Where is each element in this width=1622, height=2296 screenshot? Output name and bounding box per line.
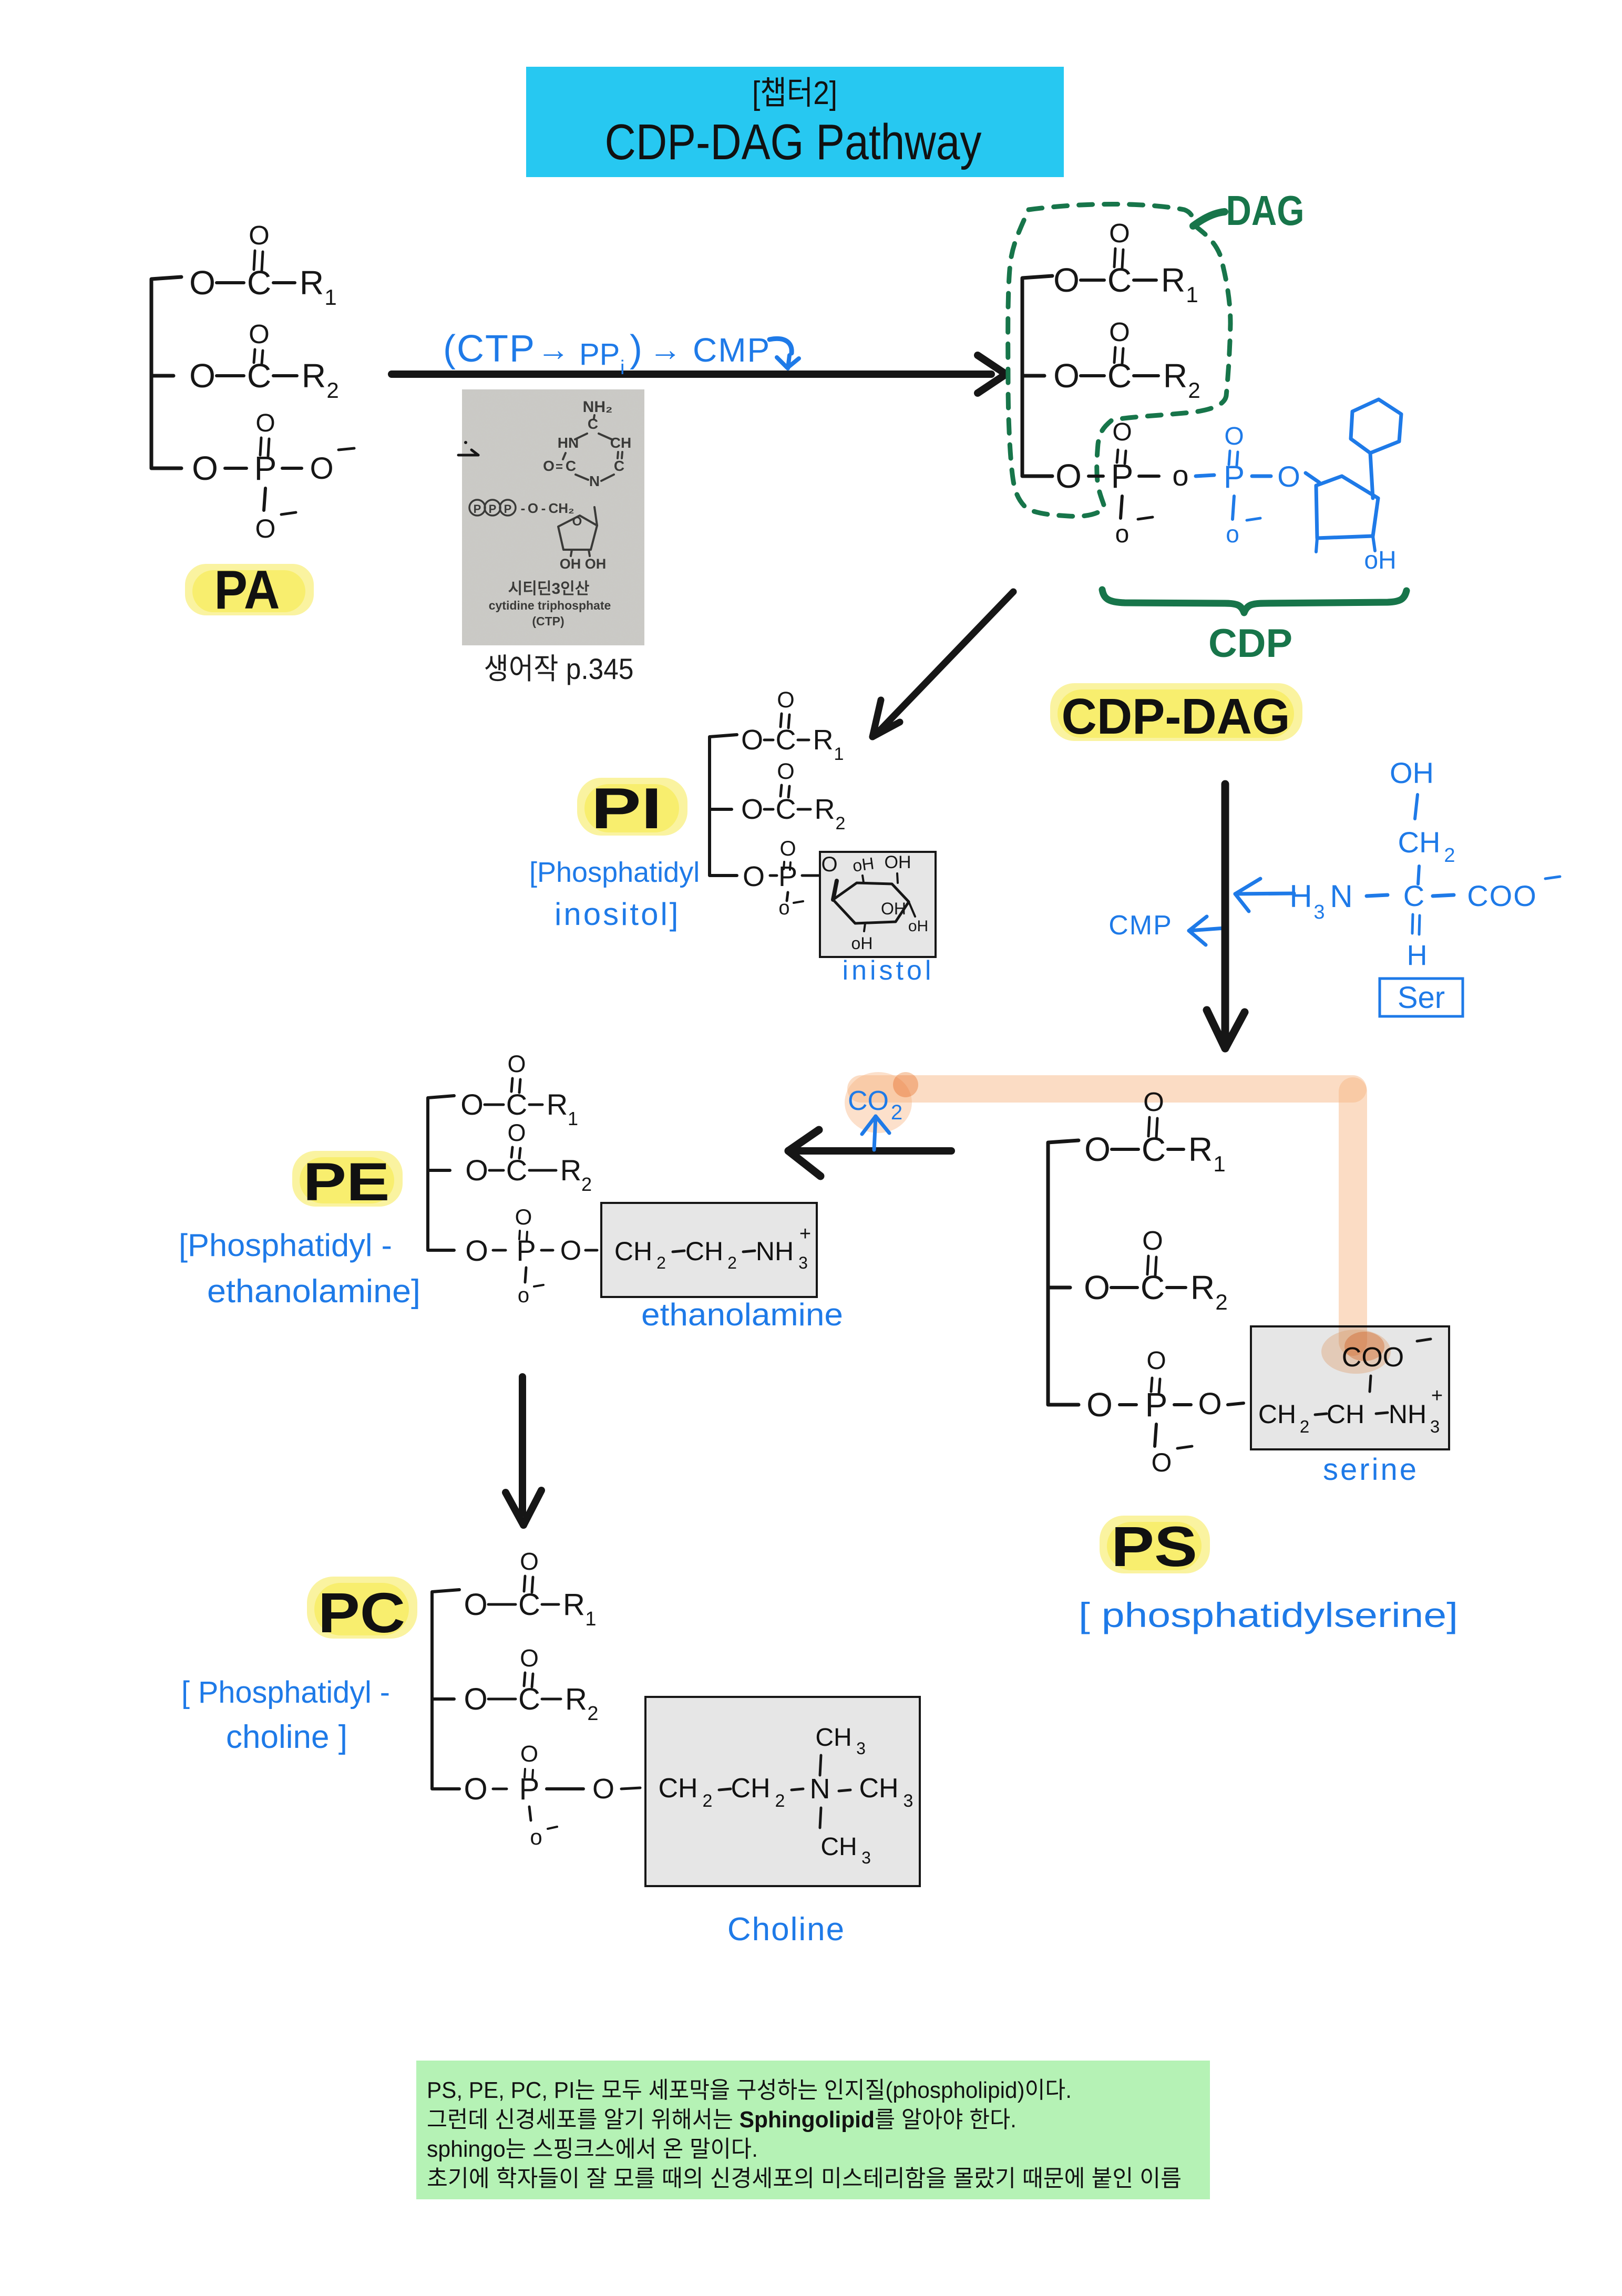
svg-text:inistol: inistol xyxy=(843,955,935,986)
svg-text:O: O xyxy=(465,1234,488,1267)
svg-text:3: 3 xyxy=(861,1848,871,1867)
svg-text:sphingo는 스핑크스에서 온 말이다.: sphingo는 스핑크스에서 온 말이다. xyxy=(427,2136,758,2162)
svg-text:O: O xyxy=(777,759,794,784)
svg-text:O: O xyxy=(528,500,538,516)
svg-text:R: R xyxy=(1190,1269,1215,1306)
svg-text:O: O xyxy=(310,451,333,486)
svg-text:R: R xyxy=(302,357,326,395)
svg-text:cytidine triphosphate: cytidine triphosphate xyxy=(489,599,611,612)
svg-text:2: 2 xyxy=(1188,378,1200,403)
svg-text:C: C xyxy=(614,458,624,474)
svg-text:H: H xyxy=(1289,879,1312,914)
svg-text:C: C xyxy=(506,1088,527,1121)
svg-text:O: O xyxy=(1053,261,1080,299)
svg-text:(CTP): (CTP) xyxy=(532,614,564,628)
svg-text:o: o xyxy=(1115,520,1130,548)
svg-text:o: o xyxy=(530,1825,542,1849)
svg-text:O: O xyxy=(1086,1386,1113,1424)
svg-text:CH: CH xyxy=(658,1773,697,1804)
svg-text:O: O xyxy=(189,357,215,395)
svg-text:R: R xyxy=(560,1154,581,1187)
svg-text:C: C xyxy=(1141,1269,1165,1306)
svg-text:CH: CH xyxy=(859,1773,898,1804)
svg-text:R: R xyxy=(563,1588,585,1622)
svg-text:N: N xyxy=(589,473,600,489)
svg-text:3: 3 xyxy=(904,1791,913,1811)
svg-text:O: O xyxy=(741,794,763,825)
svg-text:R: R xyxy=(547,1088,568,1121)
svg-text:2: 2 xyxy=(581,1173,592,1195)
svg-text:OH: OH xyxy=(585,556,607,572)
svg-text:그런데 신경세포를 알기 위해서는 Sphingolipid: 그런데 신경세포를 알기 위해서는 Sphingolipid를 알아야 한다. xyxy=(427,2107,1017,2133)
svg-text:CH: CH xyxy=(731,1773,770,1804)
svg-text:CH: CH xyxy=(1398,826,1441,859)
svg-text:C: C xyxy=(776,794,796,825)
svg-text:oH: oH xyxy=(908,918,928,935)
svg-text:3: 3 xyxy=(1313,901,1325,923)
svg-text:C: C xyxy=(588,416,598,432)
svg-text:CH₂: CH₂ xyxy=(548,500,574,516)
svg-text:2: 2 xyxy=(775,1791,785,1811)
svg-text:1: 1 xyxy=(834,744,844,764)
svg-text:O: O xyxy=(1084,1130,1111,1168)
svg-text:P: P xyxy=(778,861,797,892)
svg-text:o: o xyxy=(1226,520,1239,548)
svg-text:CMP: CMP xyxy=(693,331,771,369)
svg-text:C: C xyxy=(518,1588,540,1622)
svg-text:2: 2 xyxy=(656,1253,666,1272)
svg-text:2: 2 xyxy=(836,814,846,833)
svg-text:O: O xyxy=(1277,460,1300,493)
svg-text:O: O xyxy=(255,514,276,543)
svg-text:OH: OH xyxy=(560,556,581,572)
svg-text:O: O xyxy=(520,1741,538,1767)
svg-text:HN: HN xyxy=(558,435,579,451)
svg-text:O: O xyxy=(1109,317,1130,347)
svg-text:O: O xyxy=(560,1235,581,1266)
svg-text:O: O xyxy=(1146,1347,1166,1375)
svg-text:inositol]: inositol] xyxy=(555,897,680,932)
svg-text:생어작 p.345: 생어작 p.345 xyxy=(484,652,634,685)
svg-text:R: R xyxy=(565,1682,587,1716)
svg-text:2: 2 xyxy=(326,378,338,403)
svg-text:o: o xyxy=(1172,459,1188,492)
svg-text:3: 3 xyxy=(1430,1417,1440,1436)
svg-text:O: O xyxy=(1112,418,1132,446)
svg-text:oH: oH xyxy=(851,853,876,875)
svg-text:1: 1 xyxy=(568,1108,578,1129)
svg-text:O: O xyxy=(1055,457,1082,495)
svg-text:O: O xyxy=(821,853,837,876)
svg-text:OH: OH xyxy=(881,899,906,918)
svg-text:OH: OH xyxy=(1390,756,1434,789)
svg-text:P: P xyxy=(489,502,497,516)
svg-text:O: O xyxy=(1224,423,1244,450)
svg-text:): ) xyxy=(630,328,642,370)
svg-text:2: 2 xyxy=(1300,1417,1309,1436)
svg-text:[ phosphatidylserine]: [ phosphatidylserine] xyxy=(1079,1595,1458,1634)
svg-text:C: C xyxy=(1142,1130,1166,1168)
svg-text:R: R xyxy=(815,794,835,825)
svg-text:PP: PP xyxy=(579,337,620,372)
svg-text:3: 3 xyxy=(856,1739,866,1758)
svg-text:R: R xyxy=(1188,1130,1213,1168)
svg-text:PC: PC xyxy=(318,1581,405,1644)
svg-text:O: O xyxy=(515,1204,532,1229)
svg-text:O: O xyxy=(507,1119,526,1146)
svg-text:O: O xyxy=(520,1644,539,1672)
svg-text:CH: CH xyxy=(614,1237,652,1266)
svg-text:O: O xyxy=(464,1772,487,1806)
svg-text:2: 2 xyxy=(1215,1290,1227,1314)
svg-text:2: 2 xyxy=(1444,845,1455,867)
svg-text:(CTP: (CTP xyxy=(443,328,536,370)
svg-text:P: P xyxy=(1224,459,1245,495)
svg-text:O: O xyxy=(249,319,270,349)
svg-text:choline ]: choline ] xyxy=(226,1719,347,1755)
svg-text:O: O xyxy=(464,1588,487,1622)
svg-text:CDP-DAG Pathway: CDP-DAG Pathway xyxy=(605,114,982,170)
svg-text:3: 3 xyxy=(798,1253,808,1272)
svg-text:O: O xyxy=(543,458,555,474)
svg-text:o: o xyxy=(518,1284,529,1307)
svg-text:C: C xyxy=(776,724,796,756)
svg-text:o: o xyxy=(778,897,789,919)
svg-text:+: + xyxy=(1431,1385,1443,1407)
svg-text:NH: NH xyxy=(756,1237,794,1266)
svg-text:초기에 학자들이 잘 모를 때의 신경세포의 미스테리함을: 초기에 학자들이 잘 모를 때의 신경세포의 미스테리함을 몰랐기 때문에 붙인… xyxy=(427,2166,1182,2191)
svg-text:→: → xyxy=(649,332,682,368)
svg-text:CDP-DAG: CDP-DAG xyxy=(1062,688,1290,745)
svg-text:O: O xyxy=(465,1154,488,1187)
svg-text:C: C xyxy=(1107,357,1132,395)
svg-text:[Phosphatidyl: [Phosphatidyl xyxy=(529,857,700,888)
svg-text:ethanolamine]: ethanolamine] xyxy=(207,1273,420,1310)
svg-text:O: O xyxy=(249,220,270,250)
svg-text:NH: NH xyxy=(1389,1399,1426,1429)
svg-text:C: C xyxy=(506,1154,527,1187)
svg-text:O: O xyxy=(460,1088,484,1121)
svg-text:CH: CH xyxy=(815,1724,851,1752)
svg-text:i: i xyxy=(620,357,624,379)
svg-text:1: 1 xyxy=(1186,282,1198,307)
svg-text:시티딘3인산: 시티딘3인산 xyxy=(508,580,590,598)
svg-text:P: P xyxy=(519,1772,540,1806)
svg-text:O: O xyxy=(507,1051,526,1077)
svg-text:R: R xyxy=(1161,261,1185,299)
svg-text:2: 2 xyxy=(891,1101,902,1124)
svg-text:CH: CH xyxy=(685,1237,723,1266)
svg-text:P: P xyxy=(1145,1386,1168,1424)
svg-text:ethanolamine: ethanolamine xyxy=(641,1297,843,1332)
svg-text:O: O xyxy=(1142,1226,1163,1255)
svg-text:=: = xyxy=(556,460,563,474)
svg-text:C: C xyxy=(247,264,271,302)
svg-text:PI: PI xyxy=(591,776,662,841)
svg-text:C: C xyxy=(247,357,271,395)
svg-text:-: - xyxy=(521,500,526,516)
svg-text:O: O xyxy=(1084,1269,1110,1306)
svg-text:2: 2 xyxy=(703,1791,713,1811)
svg-text:O: O xyxy=(1109,218,1130,248)
svg-text:CH: CH xyxy=(610,435,631,451)
svg-text:N: N xyxy=(1330,879,1352,914)
svg-text:CH: CH xyxy=(1327,1399,1364,1429)
svg-text:-: - xyxy=(541,500,546,516)
svg-text:O: O xyxy=(777,687,794,713)
svg-text:O: O xyxy=(192,449,218,487)
svg-text:serine: serine xyxy=(1323,1453,1419,1487)
svg-text:NH₂: NH₂ xyxy=(583,398,613,416)
svg-text:CH: CH xyxy=(1258,1399,1296,1429)
svg-text:2: 2 xyxy=(727,1253,737,1272)
svg-text:O: O xyxy=(520,1548,539,1575)
svg-text:1: 1 xyxy=(585,1608,596,1630)
svg-text:H: H xyxy=(1407,940,1428,971)
svg-text:R: R xyxy=(1163,357,1187,395)
svg-text:C: C xyxy=(566,458,576,474)
svg-text:N: N xyxy=(810,1773,830,1805)
svg-text:O: O xyxy=(572,514,582,529)
svg-text:+: + xyxy=(799,1223,811,1245)
svg-text:→: → xyxy=(537,332,570,368)
svg-text:O: O xyxy=(1198,1387,1221,1421)
svg-text:R: R xyxy=(813,724,834,756)
svg-text:O: O xyxy=(743,861,765,892)
svg-text:PA: PA xyxy=(214,560,280,621)
svg-text:C: C xyxy=(1403,879,1424,912)
svg-text:C: C xyxy=(518,1682,540,1716)
svg-text:PE: PE xyxy=(303,1152,390,1212)
svg-text:O: O xyxy=(189,264,215,302)
svg-text:1: 1 xyxy=(1213,1151,1225,1176)
svg-text:[챕터2]: [챕터2] xyxy=(752,75,837,111)
svg-text:oH: oH xyxy=(851,934,873,953)
svg-text:C: C xyxy=(1107,261,1132,299)
svg-text:DAG: DAG xyxy=(1226,187,1305,234)
svg-text:R: R xyxy=(300,264,324,302)
svg-text:[ Phosphatidyl -: [ Phosphatidyl - xyxy=(181,1675,390,1710)
svg-text:O: O xyxy=(779,837,796,860)
svg-text:P: P xyxy=(474,502,481,516)
svg-text:CMP: CMP xyxy=(1108,910,1173,941)
svg-text:CO: CO xyxy=(848,1086,889,1116)
svg-text:2: 2 xyxy=(587,1703,598,1725)
svg-text:oH: oH xyxy=(1364,547,1396,574)
svg-text:O: O xyxy=(1152,1448,1172,1477)
svg-text:PS: PS xyxy=(1111,1515,1197,1578)
svg-text:O: O xyxy=(255,409,275,437)
svg-text:PS, PE, PC, PI는 모두 세포막을 구성하는 인: PS, PE, PC, PI는 모두 세포막을 구성하는 인지질(phospho… xyxy=(427,2077,1072,2103)
svg-text:COO: COO xyxy=(1467,879,1537,912)
svg-text:Ser: Ser xyxy=(1398,981,1445,1015)
svg-text:O: O xyxy=(464,1682,487,1716)
svg-text:CDP: CDP xyxy=(1208,621,1292,666)
svg-text:Choline: Choline xyxy=(727,1911,845,1948)
svg-text:O: O xyxy=(1053,357,1080,395)
svg-text:P: P xyxy=(504,502,512,516)
svg-text:O: O xyxy=(592,1773,614,1805)
svg-text:CH: CH xyxy=(820,1833,857,1861)
svg-text:P: P xyxy=(1111,457,1134,495)
svg-text:O: O xyxy=(741,724,763,756)
svg-text:P: P xyxy=(254,449,277,487)
svg-text:1: 1 xyxy=(324,285,336,310)
svg-text:OH: OH xyxy=(885,852,911,872)
svg-text:[Phosphatidyl -: [Phosphatidyl - xyxy=(179,1228,392,1263)
